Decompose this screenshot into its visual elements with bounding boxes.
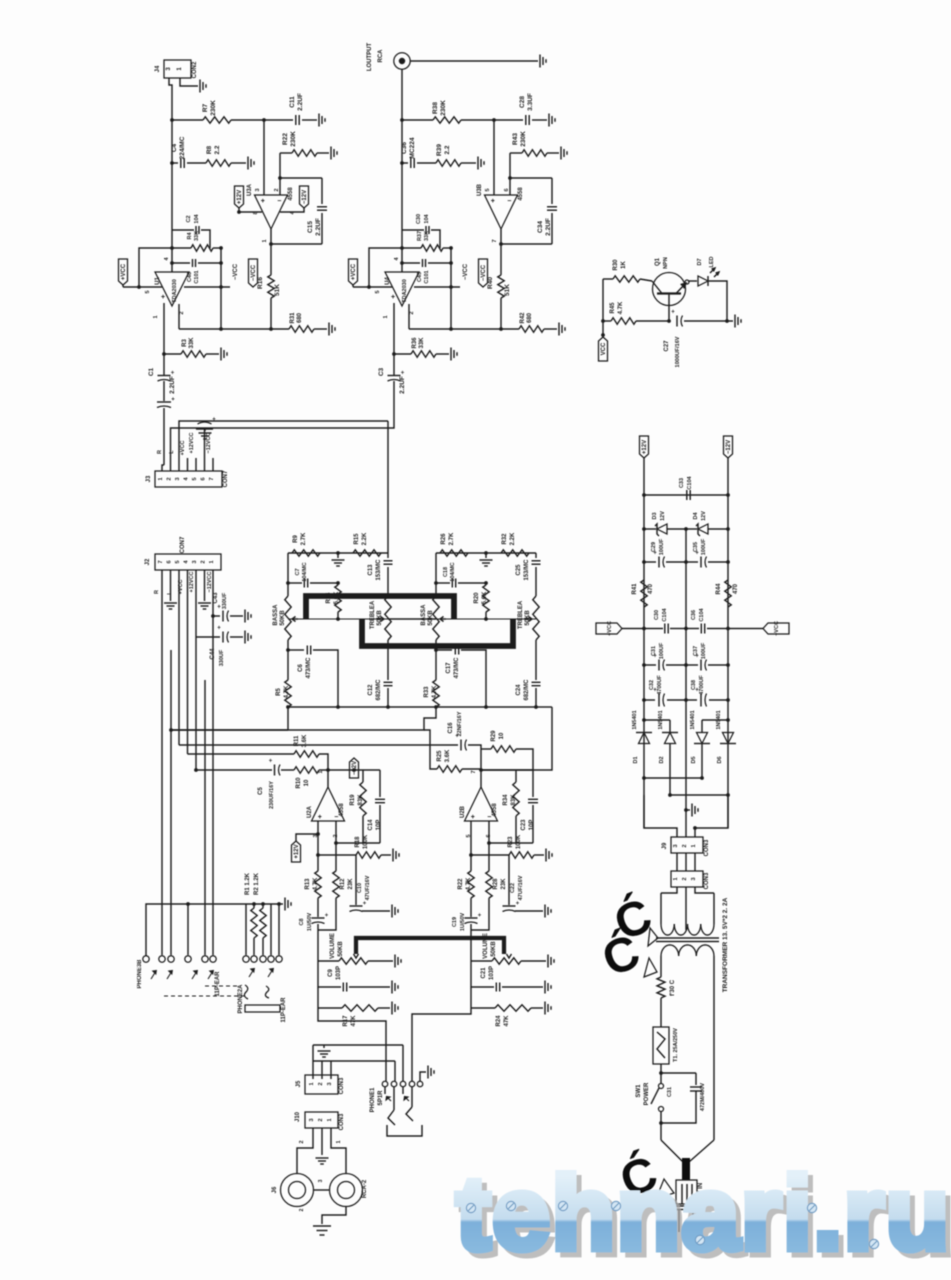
wire RCA link: [314, 1189, 330, 1191]
svg-text:1K: 1K: [621, 260, 627, 268]
svg-text:−: −: [334, 814, 338, 821]
svg-text:U3B: U3B: [477, 183, 483, 196]
svg-text:J3: J3: [146, 475, 152, 482]
svg-text:+: +: [671, 310, 675, 316]
resistor R18 100K: [318, 854, 356, 856]
wire J2 pin7 down: [161, 570, 163, 955]
svg-text:C7: C7: [295, 568, 301, 575]
svg-text:2: 2: [682, 877, 688, 880]
svg-text:C35: C35: [693, 542, 699, 552]
power tag +12V mid: [292, 841, 301, 862]
wire right rail: [727, 458, 729, 828]
wire LED to ground leg: [708, 281, 727, 321]
svg-text:−12VCC: −12VCC: [207, 572, 213, 593]
node tone gnd: [484, 551, 488, 555]
capacitor C29 100UF: [644, 561, 656, 563]
svg-text:100UF: 100UF: [659, 538, 665, 555]
wire J3 pin5 stub: [195, 458, 197, 471]
wire pin2 row: [409, 328, 519, 330]
svg-text:C30: C30: [654, 610, 660, 620]
resistor R1 1.2K: [253, 904, 255, 908]
capacitor C16 22NF/16V: [179, 744, 458, 746]
svg-text:C9: C9: [328, 969, 334, 977]
resistor R45 4.7K: [603, 320, 611, 322]
wire node to op-amp +in: [493, 120, 495, 195]
wire tone bottom link: [388, 706, 436, 708]
svg-text:2: 2: [299, 1208, 305, 1211]
svg-text:470: 470: [648, 583, 654, 594]
connector transformer CON3: [671, 871, 703, 887]
svg-text:R33: R33: [424, 686, 430, 698]
resistor R37 33K: [402, 247, 421, 249]
capacitor C28 3.3UF: [494, 119, 523, 121]
ground at C10: [391, 905, 393, 918]
svg-text:R7: R7: [202, 103, 209, 112]
resistor R39 2.2: [436, 160, 461, 166]
svg-text:R32: R32: [502, 533, 508, 545]
ground at R18: [392, 849, 394, 862]
resistor R16 51K: [270, 244, 272, 275]
mark triangle b: [644, 958, 657, 977]
svg-text:CON7: CON7: [223, 470, 229, 487]
potentiometer TREBLEB 50KB: [533, 596, 539, 640]
resistor R23 100K: [471, 854, 509, 856]
svg-text:−12V: −12V: [352, 761, 358, 775]
svg-text:2: 2: [409, 311, 415, 314]
svg-text:C17: C17: [446, 662, 452, 674]
AC plug body: [676, 1180, 697, 1204]
svg-text:51K: 51K: [274, 284, 281, 296]
wire J3 pin4 stub: [187, 458, 189, 471]
wire to ground: [684, 320, 733, 322]
wire pin2 down: [178, 304, 180, 329]
wire left rail: [643, 458, 645, 828]
svg-text:C12: C12: [368, 684, 374, 696]
wire -12V to pin4: [280, 208, 304, 212]
connector J4 CON2: [164, 60, 191, 78]
capacitor C7 104/MC: [288, 582, 302, 584]
LED D7: [698, 276, 708, 286]
svg-text:C27: C27: [664, 340, 670, 352]
ground at C9: [544, 981, 546, 994]
svg-text:+: +: [269, 759, 273, 765]
node main-C4: [170, 161, 174, 165]
svg-text:−VCC: −VCC: [774, 621, 780, 636]
wire RCA down: [401, 69, 403, 120]
resistor R28 23K: [486, 871, 492, 898]
svg-text:50KB: 50KB: [338, 941, 344, 957]
wire tone right to R25: [172, 707, 436, 730]
power tag +VCC: [349, 259, 358, 285]
svg-text:230UF/16Y: 230UF/16Y: [269, 781, 275, 809]
svg-text:R4: R4: [187, 232, 193, 240]
mark triangle a: [648, 928, 658, 946]
svg-text:230K: 230K: [520, 131, 527, 147]
phone1 arrow B: [405, 1097, 410, 1102]
wire +12V to +in: [296, 834, 318, 841]
svg-text:4.7K: 4.7K: [432, 685, 438, 698]
svg-text:C16: C16: [448, 722, 454, 734]
svg-text:−: −: [507, 198, 511, 205]
wire J2 pin3 down: [195, 637, 197, 770]
wire R25 to opamp: [480, 769, 482, 770]
wire J3 pin7 stub: [212, 458, 214, 471]
svg-text:2: 2: [318, 1118, 324, 1121]
svg-text:−VCC: −VCC: [481, 264, 487, 281]
svg-text:+: +: [171, 371, 175, 377]
svg-text:R34: R34: [503, 794, 509, 806]
svg-text:C13: C13: [368, 564, 374, 576]
svg-text:3: 3: [192, 560, 198, 563]
svg-text:10P: 10P: [376, 820, 382, 831]
wire volume out down left: [318, 1008, 386, 1081]
wire phone1 contacts: [384, 1087, 386, 1094]
svg-text:5: 5: [485, 188, 491, 191]
svg-text:3: 3: [255, 188, 261, 191]
terminal circle 1: [143, 956, 149, 962]
svg-text:R: R: [154, 590, 160, 594]
svg-text:C45: C45: [417, 272, 423, 282]
wire switch down: [660, 1112, 662, 1141]
svg-text:R1 1.2K: R1 1.2K: [245, 872, 251, 895]
wire phone1 to ground: [420, 1072, 426, 1081]
capacitor C36 C104 supply: [700, 624, 702, 634]
wire phone1 a: [402, 1045, 404, 1081]
svg-text:+: +: [217, 605, 221, 611]
svg-text:50KB: 50KB: [491, 941, 497, 957]
svg-text:51K: 51K: [504, 284, 511, 296]
wire pin1 down: [163, 303, 165, 354]
svg-text:100K: 100K: [363, 834, 369, 849]
wire bass pot bottom: [287, 640, 289, 680]
node -in: [508, 176, 512, 180]
capacitor C2 104: [172, 229, 194, 231]
node output: [499, 242, 503, 246]
wire node to op-amp +in: [263, 120, 265, 195]
svg-text:1: 1: [691, 844, 697, 847]
fuse T1 2.5A/250V: [653, 1027, 669, 1064]
svg-text:−VCC: −VCC: [233, 263, 239, 280]
power tag +12V supply: [640, 436, 649, 458]
wire right input return: [171, 385, 395, 471]
svg-text:5: 5: [375, 290, 381, 293]
capacitor C21 103P: [471, 961, 494, 987]
terminal circle 8: [270, 904, 272, 955]
svg-text:1: 1: [336, 1140, 342, 1143]
svg-text:R41: R41: [632, 583, 638, 595]
terminal circle 4: [187, 904, 189, 955]
svg-text:R43: R43: [512, 133, 519, 145]
wire tone out to R11: [287, 707, 289, 730]
ground at R3: [450, 348, 452, 361]
svg-text:R23: R23: [508, 836, 514, 848]
ground at C10: [544, 905, 546, 918]
resistor R24 47K: [470, 987, 472, 1008]
svg-text:4558: 4558: [339, 803, 345, 817]
svg-text:PHONE3B: PHONE3B: [137, 959, 143, 989]
svg-text:R: R: [157, 450, 163, 454]
svg-text:R5: R5: [276, 688, 282, 696]
svg-text:C31: C31: [651, 646, 657, 656]
wire tone mid rail link: [388, 618, 436, 620]
svg-text:+VCC: +VCC: [121, 263, 127, 280]
svg-text:4558: 4558: [518, 187, 524, 201]
svg-text:MC224: MC224: [409, 137, 416, 158]
ground at R31: [328, 323, 330, 336]
svg-text:VOLUME: VOLUME: [330, 933, 336, 959]
resistor R25 3.6K: [424, 730, 437, 769]
power tag VCC at Q1: [599, 337, 608, 361]
ground at J4: [199, 80, 201, 93]
power tag +VCC supply: [596, 623, 622, 634]
svg-text:6: 6: [504, 188, 510, 191]
terminal circle 9: [278, 904, 280, 955]
op-amp U2B 4558: [465, 787, 498, 821]
capacitor C25 153/MC: [535, 553, 537, 558]
ground at R17: [391, 1002, 393, 1015]
svg-text:680: 680: [527, 312, 533, 323]
watermark screws: [466, 1203, 475, 1212]
zener D4 12V: [686, 528, 697, 530]
capacitor C32 4700UF: [644, 699, 655, 701]
wire main vertical: [401, 120, 403, 272]
svg-text:4.7K: 4.7K: [466, 877, 472, 890]
svg-text:104: 104: [194, 213, 200, 223]
svg-text:C21: C21: [481, 967, 487, 979]
wire +VCC to amp: [352, 285, 354, 287]
capacitor C10 47UF/16V: [355, 855, 357, 905]
svg-text:5.6K: 5.6K: [482, 591, 488, 604]
wire collector to LED: [688, 280, 697, 282]
svg-text:R44: R44: [716, 583, 722, 595]
svg-text:BASSA: BASSA: [273, 604, 279, 626]
ground at return wire: [204, 428, 206, 431]
switch contact squiggle b: [265, 986, 269, 998]
node feedback top: [400, 246, 404, 250]
svg-text:2.2UF: 2.2UF: [545, 218, 552, 236]
resistor R13 4.7K: [317, 855, 319, 871]
wire op-amp out: [480, 770, 482, 787]
node feedback mid: [400, 261, 404, 265]
wire diode row a: [644, 777, 702, 779]
svg-text:R36: R36: [412, 337, 418, 349]
jack arrow B: [167, 971, 172, 979]
svg-text:CON3: CON3: [339, 1113, 345, 1130]
svg-text:4558: 4558: [288, 187, 294, 201]
resistor R36 33K: [394, 353, 411, 355]
capacitor C33 C104: [644, 494, 728, 496]
potentiometer BASSA 50KB: [285, 596, 291, 640]
svg-text:PHONE1: PHONE1: [370, 1087, 376, 1112]
svg-text:1: 1: [673, 877, 679, 880]
power tag -12V mid: [350, 758, 359, 778]
svg-text:2.2K: 2.2K: [510, 532, 516, 545]
svg-text:R9: R9: [293, 535, 299, 543]
wiper treble: [376, 618, 384, 620]
svg-text:12V: 12V: [701, 511, 707, 521]
op-amp U3A 4558: [255, 195, 288, 229]
svg-text:83K: 83K: [511, 794, 517, 806]
resistor R26 2.7K: [440, 550, 468, 556]
resistor R10 10: [281, 769, 294, 771]
wire tone bottom rail: [288, 706, 388, 708]
potentiometer BASSB 50KB: [433, 596, 439, 640]
svg-text:TREBLEA: TREBLEA: [518, 600, 524, 629]
node output: [269, 242, 273, 246]
svg-text:1N5401: 1N5401: [632, 710, 638, 729]
resistor R22 230K: [279, 153, 281, 178]
jack arrow A: [151, 971, 156, 979]
wire tone left rail: [287, 553, 289, 596]
wire -in to feedback caps: [510, 177, 552, 179]
svg-text:RCA-2: RCA-2: [362, 1179, 368, 1198]
svg-text:10P: 10P: [529, 820, 535, 831]
jack arrow F: [268, 969, 273, 977]
op-amp U2A 4558: [312, 787, 345, 821]
ground at C9: [391, 981, 393, 994]
svg-text:C1: C1: [148, 367, 155, 376]
svg-text:2.2UF: 2.2UF: [297, 93, 304, 111]
svg-text:C104: C104: [662, 607, 668, 621]
svg-text:47K: 47K: [504, 1015, 510, 1027]
svg-text:330UF: 330UF: [219, 649, 225, 666]
svg-text:+: +: [516, 901, 520, 907]
ground at RCA: [539, 55, 541, 68]
resistor R17 47K: [317, 987, 319, 1008]
svg-text:U2B: U2B: [460, 805, 466, 818]
ground at tone rail: [337, 553, 339, 558]
RCA jack LOUTPUT: [394, 53, 410, 69]
phone1 contact kink b: [406, 1107, 413, 1121]
svg-text:C19: C19: [452, 917, 458, 927]
node feedback mid: [170, 261, 174, 265]
wire C43 down: [212, 616, 214, 955]
svg-text:C36: C36: [401, 142, 408, 154]
svg-text:NPN: NPN: [663, 257, 669, 269]
wire J3 pin3 to top rail: [179, 421, 388, 471]
svg-text:7: 7: [158, 560, 164, 563]
ground input rail: [284, 898, 286, 911]
svg-text:R22: R22: [282, 133, 289, 145]
wire secondary leads: [661, 887, 677, 893]
RCA jack right: [330, 1174, 363, 1207]
capacitor C24 682/MC: [535, 640, 537, 680]
wire +12V to pin8: [239, 208, 262, 212]
diode D5 1N5401: [701, 720, 703, 733]
svg-text:C46: C46: [187, 272, 193, 282]
capacitor C22 47UF/16V: [508, 855, 510, 905]
wire out row: [328, 769, 380, 771]
svg-text:2: 2: [299, 1140, 305, 1143]
svg-text:J4: J4: [155, 65, 161, 72]
svg-text:330UF: 330UF: [222, 592, 228, 609]
bold wire volume link: [356, 938, 504, 954]
svg-text:+: +: [217, 626, 221, 632]
capacitor C30 104: [402, 229, 424, 231]
svg-text:C104: C104: [699, 607, 705, 621]
connector J10 CON3: [305, 1112, 338, 1128]
svg-text:+12V: +12V: [294, 844, 300, 858]
svg-text:R20: R20: [474, 592, 480, 604]
wire mid rail: [288, 618, 388, 620]
svg-text:2.2K: 2.2K: [362, 532, 368, 545]
ground at volume: [547, 955, 549, 968]
capacitor C6 473/MC: [288, 649, 304, 651]
svg-text:D4: D4: [693, 512, 699, 520]
ground at Q1: [734, 315, 736, 328]
svg-text:5: 5: [175, 560, 181, 563]
capacitor C35 100UF: [686, 561, 698, 563]
svg-text:104/MC: 104/MC: [302, 562, 308, 581]
ground at R8: [477, 157, 479, 170]
svg-text:J6: J6: [272, 1186, 278, 1193]
capacitor C37 100UF supply: [686, 664, 698, 666]
diode D2 1N5401: [669, 720, 671, 733]
svg-text:1: 1: [383, 315, 389, 318]
resistor R3 33K: [164, 353, 181, 355]
svg-text:U4: U4: [385, 277, 391, 285]
svg-text:3: 3: [673, 844, 679, 847]
ground at volume: [394, 955, 396, 968]
svg-text:R30: R30: [613, 259, 619, 271]
power tag +VCC: [119, 259, 128, 285]
svg-text:+: +: [325, 913, 329, 919]
svg-text:2: 2: [318, 1082, 324, 1085]
svg-text:1: 1: [262, 239, 268, 242]
svg-text:BASSA: BASSA: [421, 604, 427, 626]
dashed cut line a: [205, 985, 241, 987]
capacitor C9 103P: [318, 961, 341, 987]
capacitor C15 2.2UF: [321, 178, 323, 204]
ground at J2 pin6: [170, 570, 172, 601]
node pin1: [162, 352, 166, 356]
resistor R32 2.2K: [501, 550, 529, 556]
terminal circle 2: [159, 956, 165, 962]
svg-text:+: +: [478, 913, 482, 919]
svg-text:R26: R26: [441, 533, 447, 545]
ground at J2 pin2: [204, 570, 206, 601]
svg-text:+12V: +12V: [642, 440, 648, 454]
svg-text:C101: C101: [194, 270, 200, 283]
svg-text:TRANSFORMER 13. 5V*2 2. 2A: TRANSFORMER 13. 5V*2 2. 2A: [722, 897, 729, 992]
svg-text:3: 3: [327, 1082, 333, 1085]
power tag +12V: [235, 186, 244, 208]
svg-text:153/MC: 153/MC: [524, 559, 530, 581]
capacitor C27 1000UF/16V: [676, 316, 678, 327]
svg-text:+12VCC: +12VCC: [189, 433, 195, 454]
svg-text:SW1: SW1: [636, 1084, 642, 1098]
bold wire bass link: [306, 596, 454, 619]
resistor R19 83K: [362, 770, 364, 782]
svg-text:2: 2: [274, 188, 280, 191]
svg-text:6: 6: [167, 560, 173, 563]
wiper volume: [507, 954, 512, 958]
mark triangle at plug: [656, 1179, 674, 1199]
phone1 arrow A: [387, 1097, 392, 1102]
resistor R2 1.2K: [262, 904, 264, 908]
resistor R33 4.7K: [433, 680, 439, 707]
capacitor C45 C101: [402, 262, 420, 264]
power tag -VCC: [249, 259, 258, 287]
capacitor C44 330UF: [195, 570, 197, 637]
svg-text:CON3: CON3: [339, 1077, 345, 1094]
svg-text:23K: 23K: [501, 878, 507, 890]
dashed cut line b: [164, 995, 244, 997]
wire J5 stubs: [312, 1045, 314, 1079]
wire D5 top link: [702, 719, 728, 721]
node main-R7: [170, 118, 174, 122]
svg-text:3: 3: [691, 877, 697, 880]
